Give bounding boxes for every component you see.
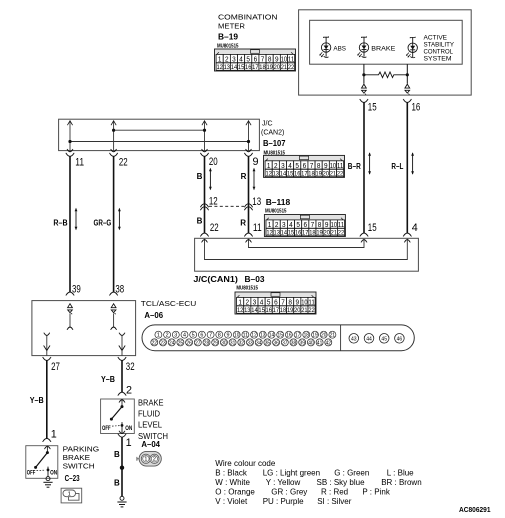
svg-text:23: 23: [160, 340, 165, 346]
svg-text:43: 43: [351, 337, 357, 343]
svg-text:Y–B: Y–B: [101, 375, 115, 384]
svg-text:CONTROL: CONTROL: [424, 49, 454, 56]
svg-text:38: 38: [291, 340, 296, 346]
svg-text:18: 18: [304, 333, 309, 339]
svg-text:P : Pink: P : Pink: [362, 488, 390, 497]
svg-text:R–L: R–L: [391, 162, 403, 171]
svg-text:SI : Silver: SI : Silver: [317, 497, 352, 506]
svg-text:37: 37: [282, 340, 287, 346]
svg-text:7: 7: [209, 333, 212, 339]
svg-text:B–R: B–R: [348, 162, 361, 171]
svg-text:OFF: OFF: [27, 469, 36, 476]
svg-text:ABS: ABS: [333, 45, 346, 52]
svg-text:41: 41: [317, 340, 322, 346]
svg-text:G : Green: G : Green: [334, 468, 369, 477]
svg-text:J/C(CAN1): J/C(CAN1): [193, 274, 238, 284]
svg-text:(CAN2): (CAN2): [261, 129, 284, 136]
svg-text:TCL/ASC-ECU: TCL/ASC-ECU: [141, 299, 197, 308]
svg-text:B–107: B–107: [263, 138, 286, 148]
svg-text:FLUID: FLUID: [138, 410, 160, 419]
svg-text:ON: ON: [125, 425, 132, 432]
svg-text:26: 26: [186, 340, 191, 346]
svg-text:15: 15: [278, 333, 283, 339]
svg-text:32: 32: [126, 361, 135, 373]
svg-text:29: 29: [213, 340, 218, 346]
svg-text:Y–B: Y–B: [30, 396, 44, 405]
svg-text:15: 15: [368, 222, 377, 234]
svg-text:12: 12: [209, 196, 218, 208]
svg-text:1: 1: [144, 457, 147, 463]
svg-text:A–04: A–04: [141, 439, 160, 449]
svg-text:B : Black: B : Black: [215, 468, 248, 477]
svg-text:9: 9: [227, 333, 230, 339]
svg-text:SB : Sky blue: SB : Sky blue: [317, 478, 366, 487]
svg-text:16: 16: [286, 333, 291, 339]
svg-text:B: B: [197, 172, 203, 181]
svg-text:J/C: J/C: [262, 120, 273, 127]
svg-text:38: 38: [115, 284, 124, 296]
svg-text:1: 1: [157, 333, 160, 339]
svg-text:13: 13: [260, 333, 265, 339]
svg-text:33: 33: [247, 340, 252, 346]
svg-text:PU : Purple: PU : Purple: [263, 497, 304, 506]
svg-text:25: 25: [178, 340, 183, 346]
svg-text:2: 2: [153, 457, 156, 463]
svg-text:20: 20: [209, 156, 218, 168]
svg-text:13: 13: [252, 196, 261, 208]
svg-text:Wire colour code: Wire colour code: [215, 459, 276, 468]
svg-text:LG : Light green: LG : Light green: [263, 468, 320, 477]
svg-text:R: R: [240, 219, 246, 228]
svg-text:AC806291: AC806291: [459, 505, 491, 514]
svg-text:SYSTEM: SYSTEM: [424, 56, 452, 63]
svg-text:B–03: B–03: [245, 274, 265, 284]
svg-text:GR–G: GR–G: [94, 219, 112, 228]
svg-text:METER: METER: [218, 24, 245, 31]
svg-text:15: 15: [368, 101, 377, 113]
svg-text:ACTIVE: ACTIVE: [424, 34, 448, 41]
svg-text:2: 2: [166, 333, 169, 339]
svg-text:10: 10: [234, 333, 239, 339]
svg-text:11: 11: [243, 333, 249, 339]
svg-text:Y : Yellow: Y : Yellow: [266, 478, 301, 487]
svg-text:B: B: [197, 217, 203, 226]
svg-text:MU801515: MU801515: [265, 208, 287, 214]
svg-text:45: 45: [381, 337, 387, 343]
svg-text:8: 8: [218, 333, 221, 339]
svg-text:22: 22: [152, 340, 157, 346]
svg-text:24: 24: [169, 340, 174, 346]
svg-text:14: 14: [269, 333, 274, 339]
svg-text:12: 12: [251, 333, 256, 339]
svg-text:SWITCH: SWITCH: [63, 462, 95, 471]
svg-text:46: 46: [397, 337, 403, 343]
svg-text:9: 9: [253, 156, 259, 168]
svg-text:B–118: B–118: [266, 197, 291, 207]
svg-text:6: 6: [200, 333, 203, 339]
svg-text:44: 44: [366, 337, 372, 343]
svg-text:19: 19: [312, 333, 317, 339]
svg-text:B–19: B–19: [218, 32, 238, 42]
svg-text:2: 2: [126, 385, 132, 397]
svg-text:40: 40: [308, 340, 313, 346]
svg-text:1: 1: [51, 429, 57, 441]
svg-text:C–23: C–23: [65, 473, 80, 483]
svg-text:17: 17: [295, 333, 300, 339]
svg-text:O : Orange: O : Orange: [215, 488, 255, 497]
svg-text:27: 27: [195, 340, 200, 346]
svg-text:22: 22: [119, 156, 128, 168]
svg-text:STABILITY: STABILITY: [424, 41, 455, 48]
svg-text:34: 34: [256, 340, 261, 346]
svg-text:28: 28: [204, 340, 209, 346]
svg-text:22: 22: [210, 222, 219, 234]
svg-text:L : Blue: L : Blue: [387, 468, 414, 477]
svg-text:11: 11: [75, 156, 84, 168]
svg-text:COMBINATION: COMBINATION: [218, 15, 278, 22]
svg-text:1: 1: [126, 437, 132, 449]
svg-text:V : Violet: V : Violet: [215, 497, 248, 506]
svg-text:BRAKE: BRAKE: [371, 45, 396, 52]
svg-text:42: 42: [326, 340, 331, 346]
svg-text:B: B: [114, 478, 120, 487]
svg-text:39: 39: [300, 340, 305, 346]
svg-text:5: 5: [192, 333, 195, 339]
svg-text:31: 31: [230, 340, 235, 346]
svg-text:ON: ON: [50, 469, 57, 476]
svg-text:3: 3: [174, 333, 177, 339]
svg-text:27: 27: [51, 361, 60, 373]
svg-text:A–06: A–06: [144, 310, 163, 320]
svg-text:16: 16: [412, 101, 421, 113]
svg-text:32: 32: [239, 340, 244, 346]
svg-text:35: 35: [265, 340, 270, 346]
svg-text:36: 36: [273, 340, 278, 346]
svg-text:20: 20: [321, 333, 326, 339]
svg-text:R: R: [241, 172, 247, 181]
svg-text:21: 21: [330, 333, 335, 339]
svg-text:39: 39: [72, 284, 81, 296]
svg-text:R : Red: R : Red: [321, 488, 348, 497]
svg-text:OFF: OFF: [102, 425, 111, 432]
svg-text:B: B: [114, 450, 120, 459]
svg-text:4: 4: [183, 333, 186, 339]
svg-text:LEVEL: LEVEL: [138, 421, 163, 430]
svg-text:4: 4: [412, 222, 418, 234]
svg-text:R–B: R–B: [53, 219, 67, 228]
svg-text:30: 30: [221, 340, 226, 346]
svg-text:11: 11: [253, 222, 262, 234]
svg-text:BRAKE: BRAKE: [138, 399, 164, 408]
svg-text:GR : Grey: GR : Grey: [271, 488, 307, 497]
svg-text:W : White: W : White: [215, 478, 250, 487]
svg-text:BR : Brown: BR : Brown: [381, 478, 421, 487]
svg-text:MU801515: MU801515: [236, 286, 258, 292]
